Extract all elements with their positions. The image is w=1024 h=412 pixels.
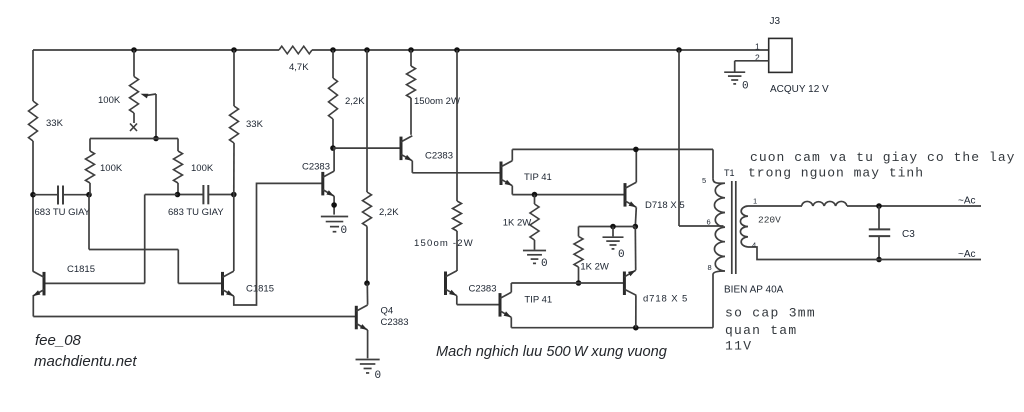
svg-text:cuon cam va tu giay co the lay: cuon cam va tu giay co the lay: [750, 150, 1016, 165]
resistor 2,2K second: [363, 50, 400, 283]
node junction cap2 left / node B: [175, 192, 181, 198]
svg-text:1K 2W: 1K 2W: [580, 262, 609, 273]
svg-text:33K: 33K: [246, 119, 264, 130]
transistor Q4 C2383: [356, 305, 408, 330]
wire secondary bottom line: [748, 247, 981, 260]
node junction 1K2W-2 bottom: [576, 280, 582, 286]
ground Q4 emitter: [356, 360, 382, 383]
svg-text:220V: 220V: [758, 215, 781, 226]
transistor TIP 41 bottom: [500, 292, 552, 317]
svg-text:Mach nghich luu 500 W xung vuo: Mach nghich luu 500 W xung vuong: [436, 344, 667, 360]
wire secondary top line left: [748, 205, 802, 207]
node junction C3 bottom: [876, 257, 882, 263]
node junction 1K top: [532, 192, 538, 198]
capacitor 683 TU GIAY right: [168, 185, 234, 218]
wire D718 emitter down to node: [635, 207, 636, 226]
transistor C2383 second: [401, 136, 453, 162]
node junction 2,2K top: [330, 47, 336, 53]
wire +12V top rail left segment: [33, 49, 279, 51]
svg-text:so cap 3mm: so cap 3mm: [725, 306, 816, 321]
svg-text:6: 6: [707, 218, 711, 227]
wire C2383-1 emitter to ground: [331, 196, 337, 215]
wire C2383-3 emitter to TIP41-2 base: [457, 296, 500, 305]
note quan tam: [725, 323, 797, 338]
node junction 150om-2 top: [454, 47, 460, 53]
svg-text:100K: 100K: [100, 163, 123, 174]
svg-text:TIP 41: TIP 41: [524, 295, 552, 306]
wire Q4 emitter down: [367, 330, 369, 358]
node junction 2,2K bottom: [330, 145, 336, 151]
svg-text:~Ac: ~Ac: [958, 249, 976, 260]
signature machdientu.net: [34, 353, 137, 370]
node junction wiper: [153, 136, 159, 142]
wire supply drop to center tap: [679, 50, 724, 226]
transistor U1 C2383 first: [302, 162, 334, 197]
node junction 33K right top: [231, 47, 237, 53]
svg-text:C1815: C1815: [67, 264, 95, 275]
svg-text:11V: 11V: [725, 339, 752, 354]
svg-text:machdientu.net: machdientu.net: [34, 353, 137, 370]
wire TIP41 collector line: [512, 149, 713, 160]
pin label 8: [708, 263, 712, 272]
node junction cap1 right / node A: [86, 192, 92, 198]
wire 33K right to cap2: [233, 143, 235, 195]
ground center: [603, 227, 625, 262]
svg-text:C2383: C2383: [469, 284, 497, 295]
svg-text:150om -2W: 150om -2W: [414, 238, 474, 249]
pin label 4 secondary: [752, 241, 756, 250]
pin label 1 secondary: [753, 197, 757, 206]
svg-text:8: 8: [708, 263, 712, 272]
svg-text:~Ac: ~Ac: [958, 196, 976, 207]
svg-text:C2383: C2383: [425, 151, 453, 162]
node junction C3 top: [876, 203, 882, 209]
wire C2383-2 emitter to TIP41 base: [412, 161, 501, 173]
svg-text:0: 0: [541, 258, 548, 270]
svg-text:0: 0: [742, 81, 749, 93]
node junction emitter-gnd mid: [610, 224, 616, 230]
svg-text:Q4: Q4: [381, 306, 394, 317]
svg-text:2,2K: 2,2K: [345, 96, 365, 107]
svg-text:1: 1: [755, 42, 760, 52]
svg-text:4: 4: [752, 241, 756, 250]
svg-text:5: 5: [702, 176, 706, 185]
ground battery: [724, 72, 748, 92]
resistor 100K right base: [174, 139, 214, 195]
svg-text:C2383: C2383: [381, 317, 409, 328]
svg-text:trong nguon may tinh: trong nguon may tinh: [748, 166, 924, 181]
svg-text:0: 0: [618, 249, 625, 261]
connector J3 box: [769, 16, 792, 72]
svg-text:1K 2W: 1K 2W: [503, 218, 532, 229]
wire bottom-left rail to Q4 base: [33, 316, 356, 318]
node junction supply drop: [676, 47, 682, 53]
note so cap: [725, 306, 816, 321]
label ACQUY 12 V: [770, 84, 829, 95]
transistor D718 X 5 top: [625, 182, 685, 211]
pin label 1 J3: [755, 42, 760, 52]
wire base line to C2383-2: [333, 147, 401, 149]
node junction 150om top: [408, 47, 414, 53]
svg-text:683 TU GIAY: 683 TU GIAY: [168, 207, 224, 218]
svg-text:TIP 41: TIP 41: [524, 172, 552, 183]
svg-text:C3: C3: [902, 229, 915, 240]
resistor 1K 2W first: [503, 195, 539, 250]
label ~Ac bottom: [958, 249, 976, 260]
node junction emitter-gnd right: [633, 224, 639, 230]
wire top line to ~Ac: [847, 205, 981, 207]
title Mach nghich luu: [436, 344, 667, 360]
wire J3 pin2 to ground: [735, 61, 769, 72]
wire D718 collector up: [635, 149, 637, 182]
svg-text:d718 X 5: d718 X 5: [643, 294, 688, 305]
svg-text:1: 1: [753, 197, 757, 206]
pot unconnected X terminal: [130, 124, 137, 132]
transistor TIP 41 top: [501, 161, 552, 186]
node junction D718 collector: [633, 147, 639, 153]
svg-text:C1815: C1815: [246, 284, 274, 295]
svg-text:C2383: C2383: [302, 162, 330, 173]
capacitor 683 TU GIAY left: [33, 186, 91, 219]
note 11V: [725, 339, 752, 354]
transformer core: [732, 181, 736, 274]
wire Q1 emitter down: [32, 296, 34, 316]
wire Q2 collector column: [233, 195, 235, 272]
capacitor C3: [869, 206, 915, 260]
wire Q4 collector up: [366, 283, 368, 305]
svg-text:100K: 100K: [191, 163, 214, 174]
node junction 2,2K-2 top: [364, 47, 370, 53]
wire left rail upper: [32, 50, 34, 101]
node junction bottom rail: [633, 325, 639, 331]
pin label 5: [702, 176, 706, 185]
wire TIP41-2 emitter down: [511, 317, 713, 327]
wire left rail to Q1 collector: [32, 141, 34, 271]
wire +12V top rail right segment: [312, 49, 769, 51]
svg-text:0: 0: [341, 225, 348, 237]
svg-text:T1: T1: [724, 168, 735, 178]
resistor 1K 2W second: [574, 227, 609, 284]
resistor 100K left base: [86, 139, 123, 195]
resistor 150om -2W second: [414, 50, 474, 271]
ground 1K 2W first: [523, 251, 548, 271]
svg-text:683 TU GIAY: 683 TU GIAY: [35, 207, 91, 218]
svg-text:4,7K: 4,7K: [289, 62, 309, 73]
svg-text:ACQUY 12 V: ACQUY 12 V: [770, 84, 829, 95]
note line 2: [748, 166, 924, 181]
svg-text:fee_08: fee_08: [35, 332, 82, 349]
label ~Ac top: [958, 196, 976, 207]
resistor 4,7K: [279, 46, 312, 73]
transistor C2383 third: [446, 271, 497, 296]
resistor 33K right: [230, 50, 264, 143]
label BIEN AP 40A: [724, 285, 784, 296]
pin label 6: [707, 218, 711, 227]
resistor 150om 2W first: [407, 50, 460, 135]
pin label 2 J3: [755, 52, 760, 62]
wire emitter gnd line: [579, 226, 636, 228]
svg-text:J3: J3: [770, 16, 781, 27]
node junction pot top: [131, 47, 137, 53]
svg-text:33K: 33K: [46, 118, 64, 129]
svg-text:0: 0: [375, 370, 382, 382]
signature fee_08: [35, 332, 82, 349]
svg-text:2,2K: 2,2K: [379, 207, 399, 218]
node junction cap2 right: [231, 192, 237, 198]
potentiometer 100K: [98, 50, 156, 139]
note line 1: [750, 150, 1016, 165]
wire node A to Q2 base: [89, 195, 223, 284]
transformer T1 secondary winding: [740, 206, 781, 247]
ground C2383-1 emitter: [321, 217, 348, 238]
resistor 2,2K first: [329, 50, 366, 148]
transistor Q1 C1815: [33, 264, 95, 296]
svg-text:150om 2W: 150om 2W: [414, 96, 460, 107]
wire TIP41 emitter line: [512, 186, 625, 195]
wire C2383-1 collector up: [333, 148, 335, 171]
inductor filter choke: [802, 201, 848, 206]
transformer T1 primary winding: [713, 168, 735, 275]
svg-text:quan tam: quan tam: [725, 323, 797, 338]
transistor Q2 C1815: [223, 271, 275, 296]
svg-text:BIEN AP 40A: BIEN AP 40A: [724, 285, 784, 296]
svg-text:100K: 100K: [98, 95, 121, 106]
wire d718 emitter up: [634, 227, 636, 271]
wire pin5 drop: [712, 149, 714, 178]
wire pin8 drop: [712, 275, 714, 328]
wire d718 collector down: [635, 295, 637, 327]
wire TIP41-2 collector line: [511, 283, 624, 292]
node junction Q4 collector: [364, 280, 370, 286]
transistor d718 X 5 bottom: [624, 270, 688, 304]
resistor 33K left: [29, 101, 64, 141]
wire base-resistor top line: [90, 138, 178, 140]
node junction cap1 left: [30, 192, 36, 198]
wire Q2 emitter to driver base: [234, 183, 323, 305]
wire node B to Q1 base: [44, 195, 178, 284]
